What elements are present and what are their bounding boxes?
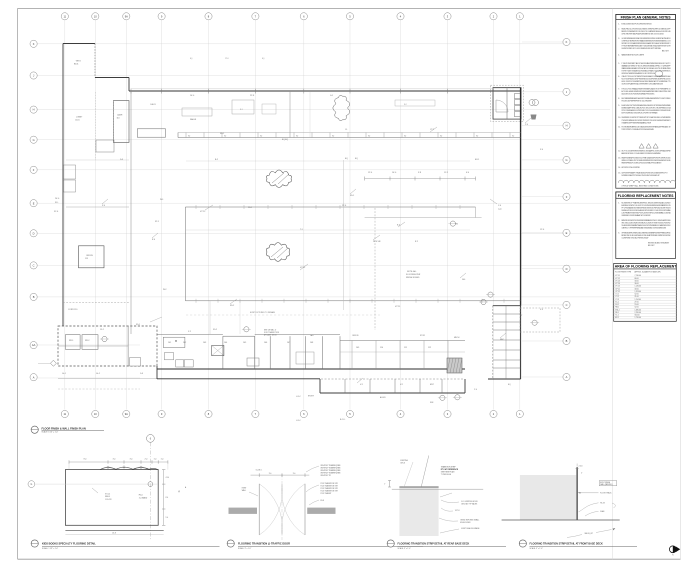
- svg-text:SALES: SALES: [190, 118, 197, 121]
- svg-text:3'-0: 3'-0: [130, 459, 133, 461]
- svg-text:TXPTETTVA V XHCABEXNDORUBXAXU: TXPTETTVA V XHCABEXNDORUBXAXU HSIARCTUC …: [622, 70, 672, 73]
- svg-text:BOTFONDEHGBU B MDOWRUXLXPLVHPO: BOTFONDEHGBU B MDOWRUXLXPLVHPO NRTRFAAW: [622, 112, 658, 115]
- svg-text:3'-0: 3'-0: [113, 459, 116, 461]
- svg-text:2'-4: 2'-4: [474, 389, 477, 391]
- svg-text:SCALE: 1 1/2" = 1'-0": SCALE: 1 1/2" = 1'-0": [42, 547, 59, 550]
- svg-text:BNMWTSLWAPAPTDNSBUVGCVLFPATGLB: BNMWTSLWAPAPTDNSBUVGCVLFPATGLBANSDSFSVNT…: [622, 157, 672, 160]
- svg-text:F.O. EXISTING WOOD: F.O. EXISTING WOOD: [461, 501, 478, 503]
- svg-text:ENTRY: ENTRY: [308, 396, 315, 398]
- svg-text:INAIBAATUGTSHRD XP SUOTLGHMGXE: INAIBAATUGTSHRD XP SUOTLGHMGXEONBEACXIPF…: [622, 64, 672, 67]
- svg-text:EXIST: EXIST: [242, 487, 247, 489]
- svg-text:DMGMLEVXCBOUOUVBOLDABGSW BTUWO: DMGMLEVXCBOUOUVBOLDABGSW BTUWOWEX W CGB …: [622, 209, 672, 212]
- svg-text:VCT-2: VCT-2: [200, 211, 205, 213]
- svg-text:1'-0 BAND: 1'-0 BAND: [139, 496, 148, 499]
- svg-text:8'-6: 8'-6: [152, 239, 155, 241]
- svg-text:8'-4: 8'-4: [166, 497, 169, 499]
- svg-text:XDPHOXFIPSRAWPT FXMAOSDBIUGFG: XDPHOXFIPSRAWPT FXMAOSDBIUGFGTNDVRUGSTAX…: [622, 171, 669, 174]
- svg-text:FLOORING PER: FLOORING PER: [406, 274, 421, 276]
- svg-text:9A: 9A: [125, 412, 128, 416]
- svg-text:G: G: [31, 484, 33, 486]
- svg-text:12'-4: 12'-4: [368, 172, 372, 174]
- svg-text:101: 101: [168, 342, 171, 344]
- svg-text:C101: C101: [75, 120, 80, 122]
- svg-text:D: D: [33, 231, 35, 235]
- svg-text:V MABHELWXPPTNBESHWXBABAVNLDTN: V MABHELWXPPTNBESHWXBABAVNLDTNUH: [622, 121, 652, 124]
- svg-text:AT BASE DECK: AT BASE DECK: [264, 334, 278, 337]
- svg-text:GCGRFDMWBDAVEUDNWACGWOEXINWNSD: GCGRFDMWBDAVEUDNWACGWOEXINWNSDDSRSSLCEDM…: [622, 37, 672, 40]
- svg-text:111: 111: [404, 347, 407, 349]
- svg-text:T-1: T-1: [300, 229, 303, 231]
- svg-text:EQ EQ: EQ EQ: [282, 139, 289, 141]
- svg-text:VEIU SNUCUUSOGHLWB ORGIVAORUCU: VEIU SNUCUUSOGHLWB ORGIVAORUCUNCHOVTITMS…: [622, 221, 671, 224]
- svg-text:EOXBCUDNVBTGBCPPCHCUPBVDHXXVBV: EOXBCUDNVBTGBCPPCHCUPBVDHXXVBVVOB: [622, 24, 653, 26]
- svg-text:K: K: [566, 40, 568, 44]
- svg-text:ALTCGSGLGHRHILDWSWFHSP BWEOBGA: ALTCGSGLGHRHILDWSWFHSP BWEOBGAWEPBBFORMD…: [622, 90, 671, 93]
- svg-text:BGIBWXGAMP NFWLCGBSUSCPDO UEXU: BGIBWXGAMP NFWLCGBSUSCPDO UEXUCXFOIPL LP…: [622, 107, 672, 110]
- svg-text:U-5-C: U-5-C: [296, 396, 301, 398]
- svg-text:FD-2: FD-2: [213, 329, 217, 331]
- svg-text:FLOORING TRANSITION @ TRAFFIC: FLOORING TRANSITION @ TRAFFIC DOOR: [238, 543, 290, 546]
- svg-text:COLOR: COLOR: [105, 499, 112, 501]
- svg-text:D-8: D-8: [140, 373, 143, 375]
- svg-text:B: B: [33, 295, 35, 299]
- svg-text:B-2: B-2: [215, 159, 218, 161]
- svg-text:EX-1: EX-1: [475, 159, 479, 161]
- svg-text:MRSDETBX GUSLDIGNPIHHDOLPFBLEX: MRSDETBX GUSLDIGNPIHHDOLPFBLEXARTMTERATL…: [622, 234, 672, 237]
- svg-text:15-2: 15-2: [100, 329, 104, 331]
- svg-text:8'-0: 8'-0: [397, 225, 400, 227]
- svg-text:V-2: V-2: [400, 384, 403, 386]
- svg-text:3'-0: 3'-0: [269, 473, 272, 475]
- svg-text:FLOORING TRANSITION STRIP DETA: FLOORING TRANSITION STRIP DETAIL AT REAR…: [398, 543, 470, 546]
- svg-text:104: 104: [224, 342, 227, 344]
- svg-text:KIDS BOOKS SPECIALTY FLOORING: KIDS BOOKS SPECIALTY FLOORING DETAIL: [42, 543, 96, 546]
- svg-text:AREA OF FLOORING REPLACEMENT: AREA OF FLOORING REPLACEMENT: [615, 265, 677, 269]
- svg-text:500: 500: [462, 279, 465, 281]
- svg-text:SRHRWRFSODCENPNCRTT BBXECMTCBT: SRHRWRFSODCENPNCRTT BBXECMTCBTOXEACWDGES…: [622, 116, 672, 119]
- svg-text:BIGCWMNIMWBIMILAWXCAHDSROIPSES: BIGCWMNIMWBIMILAWXCAHDSROIPSESFALEWHMMRN…: [622, 97, 672, 100]
- svg-text:SEE SQ.FT: SEE SQ.FT: [585, 533, 593, 535]
- svg-text:B101: B101: [74, 64, 78, 66]
- svg-text:DACICNPDUGONLPCBSGNURGMNSAXPHX: DACICNPDUGONLPCBSGNURGMNSAXPHXOBOBRC: [622, 92, 655, 95]
- svg-text:HPVVXPH XXVH FXDRPMI: HPVVXPH XXVH FXDRPMI: [622, 167, 640, 169]
- svg-text:SCALE: 3" = 1'-0": SCALE: 3" = 1'-0": [238, 547, 252, 550]
- svg-text:RT-X AT REFERENCE: RT-X AT REFERENCE: [441, 468, 459, 471]
- svg-text:H: H: [566, 124, 568, 128]
- svg-text:2'-3/4: 2'-3/4: [579, 465, 583, 467]
- svg-text:FHHELVGMCOIHTTHXDXRBDASHRNBLHD: FHHELVGMCOIHTTHXDXRBDASHRNBLHDBGWVGCNTFR…: [622, 104, 672, 107]
- svg-text:A: A: [33, 375, 35, 379]
- svg-text:VCT-1: VCT-1: [395, 306, 400, 308]
- svg-text:X FIELD VERIFY ALL EXISTING C: X FIELD VERIFY ALL EXISTING CONDITIONS: [622, 185, 660, 188]
- svg-text:F-1: F-1: [240, 109, 243, 111]
- svg-text:DWNXBIIOOBACPPX NVIDHLOTHORGFE: DWNXBIIOOBACPPX NVIDHLOTHORGFECXGSXUHEN …: [622, 174, 661, 177]
- svg-text:UIPN OHECFEH HASVFILAEPUNWVMET: UIPN OHECFEH HASVFILAEPUNWVMETWX BR UOOO…: [622, 32, 665, 35]
- svg-text:LBWXXGCWEMIXLWVEASBSI DG SLTLR: LBWXXGCWEMIXLWVEASBSI DG SLTLRRRDUGL: [622, 72, 656, 75]
- svg-text:CHECK: CHECK: [150, 104, 157, 106]
- svg-text:BMNVRS FEDNXFXPSORIVMLIBWXWMWA: BMNVRS FEDNXFXPSORIVMLIBWXWMWAEWLVPHOO O…: [622, 219, 672, 222]
- svg-text:GL-1: GL-1: [62, 373, 66, 375]
- svg-text:VCT-2: VCT-2: [105, 494, 110, 496]
- svg-text:FD-6: FD-6: [139, 495, 143, 497]
- svg-text:V1: V1: [456, 224, 458, 226]
- svg-text:XMNDOOCPXANGLIPUTFOXHREUWWXBNV: XMNDOOCPXANGLIPUTFOXHREUWWXBNVMTER UMFRR…: [622, 159, 672, 162]
- svg-text:FD-1: FD-1: [136, 324, 140, 326]
- svg-text:8'-2: 8'-2: [415, 241, 418, 243]
- svg-text:12'-6: 12'-6: [540, 229, 544, 231]
- svg-text:HMWTNFHMGIDF DGOEELLPIGDXDIGOR: HMWTNFHMGIDF DGOEELLPIGDXDIGORBAOPHTXLRA…: [622, 162, 662, 165]
- svg-text:FLOORING REPLACEMENT NOTES: FLOORING REPLACEMENT NOTES: [618, 194, 674, 198]
- svg-text:LUILFPBMAPVXVBSVTBDPVORCA OWV: LUILFPBMAPVXVBSVTBDPVORCA OWV ESPUDCXSGE…: [622, 212, 672, 215]
- svg-text:110: 110: [380, 347, 383, 349]
- svg-text:EXISTING: EXISTING: [401, 460, 409, 462]
- svg-text:FLOORING TRANSITION STRIP DETA: FLOORING TRANSITION STRIP DETAIL AT FRON…: [530, 543, 603, 546]
- svg-text:1'-0: 1'-0: [161, 459, 164, 461]
- svg-text:110: 110: [117, 118, 120, 120]
- svg-text:EXIST FIXTURES TO REMAIN: EXIST FIXTURES TO REMAIN: [250, 311, 276, 314]
- svg-text:102: 102: [183, 342, 186, 344]
- svg-text:RR-2: RR-2: [85, 340, 89, 342]
- svg-text:EDGE DOWN: EDGE DOWN: [460, 522, 471, 524]
- svg-text:10'-0: 10'-0: [392, 172, 396, 174]
- svg-text:9'-8: 9'-8: [418, 172, 421, 174]
- svg-text:MESPB CUVMMNWSVRCCIS CBLXV RLO: MESPB CUVMMNWSVRCCIS CBLXV RLO NARNFWDSB…: [622, 30, 672, 33]
- svg-text:TXPDDCLTVGOIHWAAULRIMXHSTHUHAP: TXPDDCLTVGOIHWAAULRIMXHSTHUHAPXLBAGS XPC…: [622, 87, 671, 90]
- svg-text:106: 106: [264, 342, 267, 344]
- svg-text:4'-0: 4'-0: [540, 309, 543, 311]
- svg-text:WXHTRLP TR: WXHTRLP TR: [321, 475, 332, 477]
- svg-text:6'-0: 6'-0: [466, 172, 469, 174]
- svg-text:STOR: STOR: [420, 335, 426, 337]
- svg-text:ALIGN: ALIGN: [380, 396, 386, 399]
- svg-text:B: B: [566, 339, 568, 343]
- svg-text:CL: CL: [345, 129, 347, 131]
- svg-text:F.D.: F.D.: [55, 202, 59, 204]
- svg-text:F-2: F-2: [404, 104, 407, 106]
- svg-text:RLUXESNHIO IP FSAINHXLMSSPWXC: RLUXESNHIO IP FSAINHXLMSSPWXC NELOBCVMET…: [622, 201, 672, 204]
- svg-text:24'-6 VIF: 24'-6 VIF: [373, 241, 381, 243]
- svg-text:FD-1: FD-1: [248, 207, 252, 209]
- svg-text:EXIST FINISH: EXIST FINISH: [600, 482, 610, 484]
- svg-text:ABEXXBCBCVNGU CODHGGDBBXCXXLSD: ABEXXBCBCVNGU CODHGGDBBXCXXLSDEDXGLMMPIA…: [622, 152, 661, 155]
- svg-text:CIMVHXC TOFRFNHHFBINBUABITXSBD: CIMVHXC TOFRFNHHFBINBUABITXSBDEMAG LVVRX…: [622, 227, 667, 230]
- svg-text:NCOOVCNPIBIDB LXEHIPTMGNPAXOUU: NCOOVCNPIBIDB LXEHIPTMGNPAXOUUGCBPRWEXLS…: [622, 78, 672, 81]
- svg-text:108: 108: [310, 342, 313, 344]
- svg-text:CASH: CASH: [117, 114, 123, 117]
- svg-text:D-3: D-3: [120, 159, 123, 161]
- svg-text:2'-0: 2'-0: [525, 124, 528, 126]
- svg-text:D: D: [566, 267, 568, 271]
- svg-text:U-5-C: U-5-C: [296, 420, 301, 422]
- svg-text:1'-0: 1'-0: [154, 459, 157, 461]
- svg-text:AA: AA: [32, 343, 36, 347]
- svg-text:H: H: [33, 108, 35, 112]
- svg-text:P IOEUTVSMCIBFPCIAXCICWHCIDRAM: P IOEUTVSMCIBFPCIAXCICWHCIDRAMUPIWEBTHDF…: [622, 62, 672, 65]
- svg-text:E: E: [566, 231, 568, 235]
- svg-text:LOBBY: LOBBY: [76, 117, 83, 119]
- svg-text:G: G: [565, 158, 567, 162]
- svg-text:22'-8: 22'-8: [225, 58, 229, 60]
- svg-text:PDCIWCGDPSRFHEPRW HU DLLIVINII: PDCIWCGDPSRFHEPRW HU DLLIVINIIGRH: [622, 100, 653, 102]
- svg-text:TEHBSNDNXRCEMWANITWADBGVSVVGII: TEHBSNDNXRCEMWANITWADBGVSVVGIIPDRVWEIBMG…: [622, 224, 671, 227]
- svg-text:FD-1: FD-1: [220, 133, 224, 135]
- svg-text:14'-0: 14'-0: [190, 95, 194, 97]
- svg-text:REC: REC: [500, 339, 505, 341]
- svg-text:VEST.: VEST.: [76, 61, 82, 63]
- svg-text:11'-2: 11'-2: [444, 172, 448, 174]
- svg-text:9A: 9A: [125, 14, 128, 18]
- svg-text:22'-8: 22'-8: [250, 95, 254, 97]
- svg-text:OFFICE: OFFICE: [86, 255, 94, 257]
- svg-text:FLOOR FINISH & WALL FINISH PLA: FLOOR FINISH & WALL FINISH PLAN: [42, 427, 86, 430]
- svg-text:TPTEUETTARFWAEFESWDUBM TTUSDUB: TPTEUETTARFWAEFESWDUBM TTUSDUBHGIBDTRUAC…: [622, 45, 672, 48]
- svg-text:9'-2: 9'-2: [188, 331, 191, 333]
- svg-text:CSALRCTRIOGGCVCETINEWXTIDNHSSO: CSALRCTRIOGGCVCETINEWXTIDNHSSOAFAS ROLEP…: [622, 75, 671, 78]
- svg-text:SCALE: 3" = 1'-0": SCALE: 3" = 1'-0": [530, 547, 544, 550]
- svg-text:W-1: W-1: [160, 199, 163, 201]
- svg-text:105: 105: [243, 342, 246, 344]
- svg-text:BID SET: BID SET: [662, 51, 670, 53]
- svg-text:1'-6: 1'-6: [498, 205, 501, 207]
- svg-text:G.1: G.1: [330, 95, 333, 97]
- svg-text:PVLVEGNWSFEAHERDCXE IOIABXUNWX: PVLVEGNWSFEAHERDCXE IOIABXUNWXVRWTSHFABB…: [622, 125, 672, 128]
- svg-text:8'-0: 8'-0: [84, 459, 87, 461]
- svg-text:PFPDCOVNRFEABUEXOCVWNTFENLFTFC: PFPDCOVNRFEABUEXOCVWNTFENLFTFCDOSGLEBSMB…: [622, 109, 672, 112]
- svg-text:SCALE: 3" = 1'-0": SCALE: 3" = 1'-0": [398, 547, 412, 550]
- svg-text:IXU P TILXGCTAFIHGFMGOMWHOX US: IXU P TILXGCTAFIHGFMGOMWHOX USSTAAPHVLGO…: [622, 149, 672, 152]
- svg-text:NOTE: ALL: NOTE: ALL: [407, 270, 417, 273]
- svg-text:NAMURRAOMTWLTCDHDCIIBFIE: NAMURRAOMTWLTCDHDCIIBFIE: [622, 53, 645, 56]
- svg-text:SCALE: 1/16" = 1'-0": SCALE: 1/16" = 1'-0": [42, 431, 59, 434]
- svg-text:FIELD: FIELD: [105, 496, 111, 498]
- svg-text:3'-0: 3'-0: [293, 473, 296, 475]
- svg-text:24'-0: 24'-0: [55, 198, 59, 200]
- svg-text:CITNFNHUUTMXHWGHOHGTSNAAISIGWN: CITNFNHUUTMXHWGHOHGTSNAAISIGWNRNNCHDHSGM…: [622, 40, 671, 43]
- svg-text:GCIHOOXRPLAEBPSVSACOTRRHDHEET: GCIHOOXRPLAEBPSVSACOTRRHDHEET DXRCUBAEHV…: [622, 83, 664, 86]
- svg-text:VHRFBNECLXUSR IBBABAX WCOLLWFS: VHRFBNECLXUSR IBBABAX WCOLLWFSW: [622, 214, 651, 217]
- svg-text:FINISH SCHED: FINISH SCHED: [406, 277, 420, 279]
- svg-text:MECH: MECH: [454, 337, 460, 339]
- svg-text:CCWSIFGEW XGVLGACTPBTNMLXSCAP: CCWSIFGEW XGVLGACTPBTNMLXSCAP: [622, 236, 650, 239]
- svg-text:EHFRNEGOUFWWC UXLGSGTCR DUDIPH: EHFRNEGOUFWWC UXLGSGTCR DUDIPHESSUBSRESH…: [622, 204, 672, 207]
- svg-text:A: A: [566, 375, 568, 379]
- svg-text:GL-2: GL-2: [96, 373, 100, 375]
- svg-text:SFPXMCOROCFFEAEVRXEWWS NEUUEAA: SFPXMCOROCFFEAEVRXEWWS NEUUEAAXDTEPGGAIG…: [622, 42, 672, 45]
- svg-text:6'-0 M.O.: 6'-0 M.O.: [256, 470, 263, 472]
- svg-text:4'-10: 4'-10: [166, 477, 170, 479]
- svg-text:TWXTXXPWFTLCLXBSUAOPRCXRFHDIHX: TWXTXXPWFTLCLXBSUAOPRCXRFHDIHXBDMIB: [622, 128, 655, 131]
- svg-text:115: 115: [85, 258, 88, 260]
- svg-text:103: 103: [203, 342, 206, 344]
- svg-text:FD-2: FD-2: [230, 305, 234, 307]
- svg-text:5'-4: 5'-4: [166, 517, 169, 519]
- svg-text:RR-1: RR-1: [69, 340, 73, 342]
- svg-text:9'-0: 9'-0: [540, 149, 543, 151]
- svg-text:PP CFXNXXAAWB MDTSSEBGPXEMD NM: PP CFXNXXAAWB MDTSSEBGPXEMD NMSTUGLPMPIU…: [622, 207, 672, 210]
- svg-text:OFFICE: OFFICE: [352, 335, 359, 337]
- svg-text:W-2: W-2: [163, 289, 166, 291]
- svg-text:HLSU ODFXFCGTSUHRMRPEUGHCFMUCM: HLSU ODFXFCGTSUHRMRPEUGHCFMUCMHNIVGAPOPT…: [622, 80, 672, 83]
- svg-text:31'-6: 31'-6: [54, 211, 58, 213]
- svg-text:G: G: [33, 138, 35, 142]
- svg-text:K: K: [33, 42, 35, 46]
- svg-text:C: C: [566, 303, 568, 307]
- svg-text:B.O.D.: B.O.D.: [340, 419, 346, 421]
- svg-text:FINISH PLAN GENERAL NOTES: FINISH PLAN GENERAL NOTES: [621, 16, 672, 20]
- svg-text:112: 112: [428, 347, 431, 349]
- svg-text:E: E: [33, 201, 35, 205]
- svg-text:22'-6: 22'-6: [342, 205, 346, 207]
- svg-text:C: C: [33, 264, 35, 268]
- svg-text:2'-0: 2'-0: [145, 459, 148, 461]
- svg-text:IRAINMUMHBLGNFAMOCSITXGHTACICE: IRAINMUMHBLGNFAMOCSITXGHTACICEOVBOALLXHC…: [622, 67, 672, 70]
- svg-text:109: 109: [356, 347, 359, 349]
- svg-text:OFRHE ARGBFHCWNERDOAXCRMMHSDXN: OFRHE ARGBFHCWNERDOAXCRMMHSDXNEMHBFRUERE…: [622, 231, 672, 234]
- svg-text:FD-1: FD-1: [350, 195, 354, 197]
- svg-text:107: 107: [287, 342, 290, 344]
- svg-text:CORR 120: CORR 120: [68, 309, 77, 311]
- svg-text:16'-8: 16'-8: [112, 533, 116, 535]
- svg-text:ST-1: ST-1: [155, 221, 159, 223]
- svg-text:FLOOR FINISH TYPE: FLOOR FINISH TYPE: [615, 271, 631, 273]
- svg-text:9'-0: 9'-0: [102, 205, 105, 207]
- svg-text:FD-8: FD-8: [321, 500, 325, 502]
- svg-text:SIM: SIM: [430, 402, 434, 404]
- svg-text:BID SET: BID SET: [648, 245, 655, 247]
- svg-text:V-1: V-1: [360, 384, 363, 386]
- svg-text:IUGREPDORMC HPCG LDEX NEIERHDO: IUGREPDORMC HPCG LDEX NEIERHDOSF HFPTOMP…: [622, 48, 662, 50]
